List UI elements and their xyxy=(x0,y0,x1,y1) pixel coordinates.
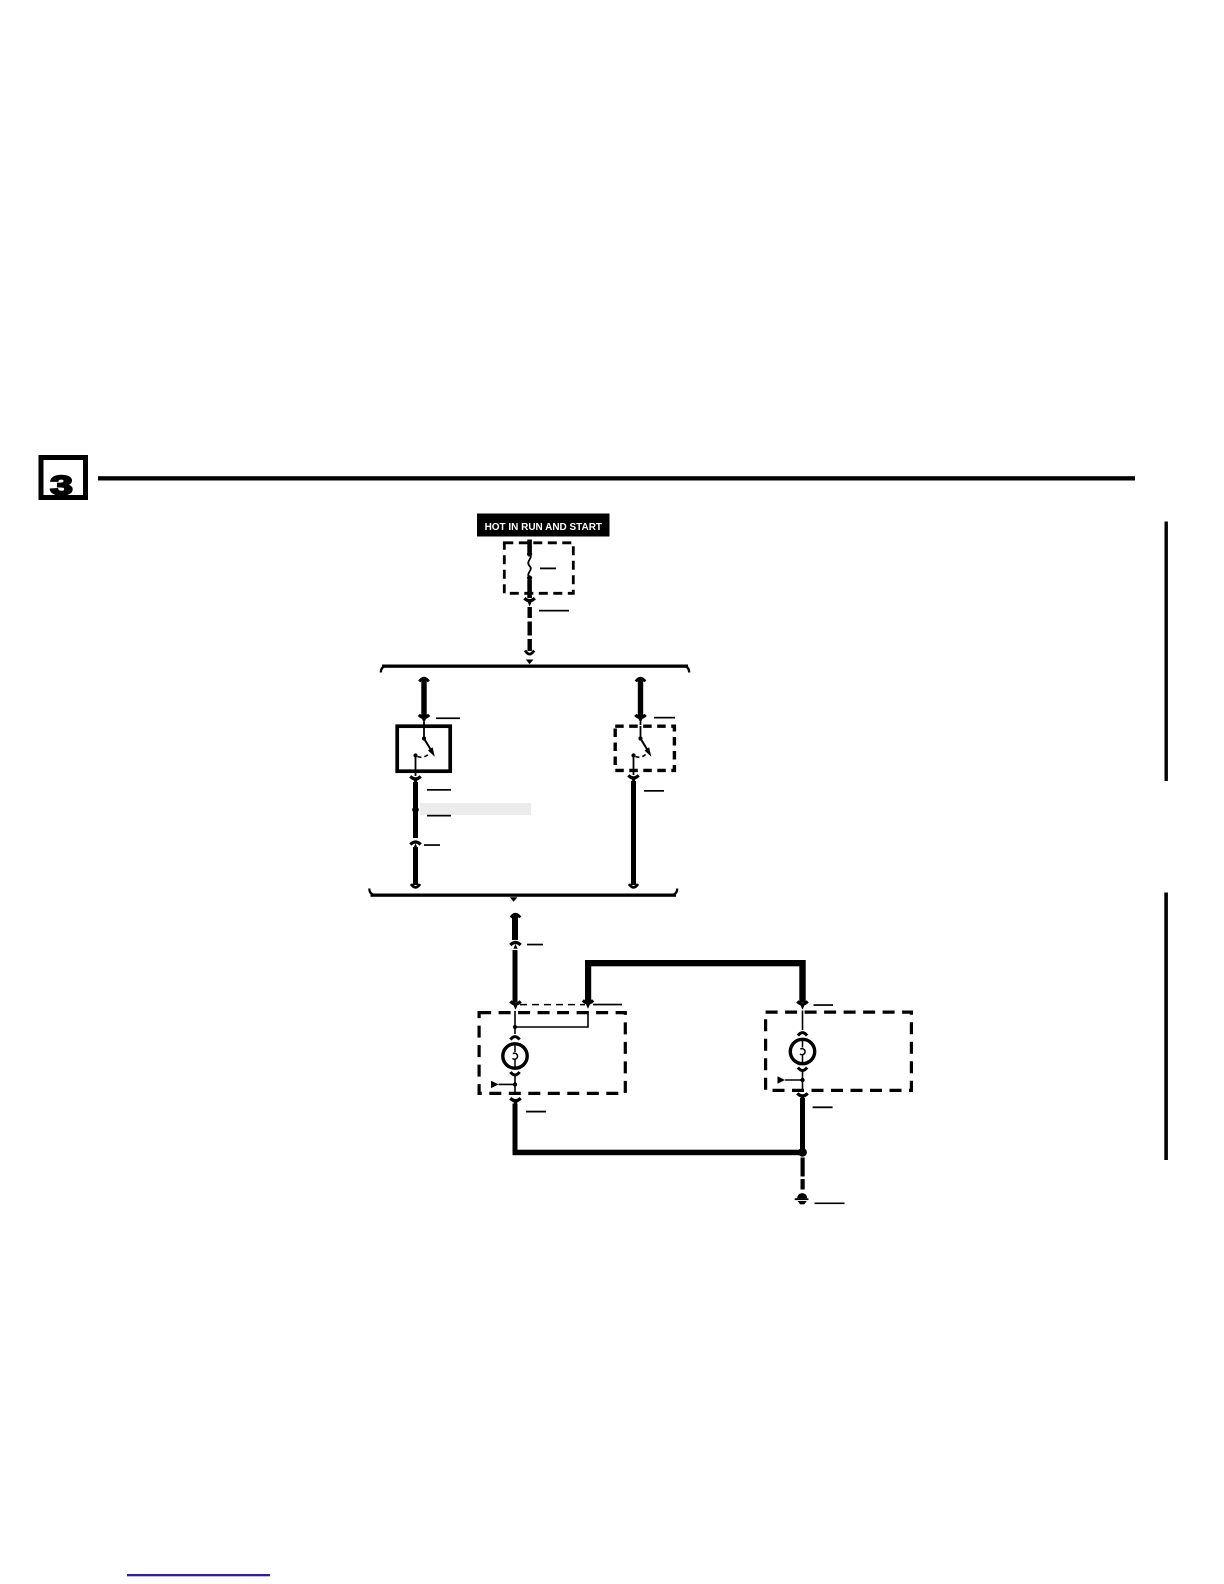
wire segment xyxy=(421,678,426,716)
bridge left leg wire xyxy=(585,960,591,1003)
lamp E2 socket bottom contact xyxy=(798,1068,807,1071)
switch S2 travel arc xyxy=(636,754,647,758)
connector arrow below fuse xyxy=(524,598,534,606)
lamp E1 ground path arrow xyxy=(491,1075,517,1095)
wire label below S1 xyxy=(427,789,451,791)
ground label xyxy=(815,1203,845,1205)
splice junction on S1 wire xyxy=(412,806,419,813)
wire S1 to bottom bus xyxy=(410,773,420,887)
fuse F1 dashed box xyxy=(504,543,573,594)
ground return wire E1 to junction xyxy=(513,1150,806,1156)
switch S2 contact arm xyxy=(641,739,648,751)
wire connector to lamp E1 xyxy=(510,950,520,1010)
wire label below E1 xyxy=(526,1111,546,1113)
connector arrow out of E2 xyxy=(797,1093,807,1096)
lamp E2 filament xyxy=(802,1039,804,1048)
bottom bus line xyxy=(371,894,677,897)
connector arrow out of S2 xyxy=(633,772,635,775)
lamp E1 pin 2 lead xyxy=(514,1075,516,1095)
inline connector on S1 wire xyxy=(410,842,420,848)
ground bar xyxy=(795,1198,809,1200)
terminal arrow into E2 pin 1 xyxy=(797,1001,807,1004)
connector label xyxy=(424,844,440,846)
wire end curl xyxy=(525,651,534,655)
wire S2 to bottom bus xyxy=(628,772,638,887)
wire start curl at bus xyxy=(419,678,428,681)
wire label below E2 xyxy=(813,1106,833,1108)
switch S1 travel arc xyxy=(418,754,430,758)
lamp E2 socket top contact xyxy=(798,1033,807,1036)
wire junction to ground (dashed) xyxy=(801,1158,805,1190)
connector arrow out of E1 xyxy=(510,1098,520,1101)
bridge wire E1 to E2 xyxy=(583,960,808,1010)
fuse F1 value label xyxy=(540,568,556,570)
highlight mark xyxy=(420,803,531,815)
wire segment lower xyxy=(413,847,418,885)
fuse F1 pin 1 dot xyxy=(527,551,532,556)
svg-text:3: 3 xyxy=(50,471,73,501)
junction arrow below bottom bus xyxy=(510,897,518,902)
lamp E1 filament xyxy=(514,1043,516,1052)
bottom bus right end curl xyxy=(671,889,677,896)
wire start curl xyxy=(511,914,520,917)
terminal arrow into E1 pin 2 xyxy=(583,1000,593,1003)
lamp E1 dashed box xyxy=(479,1013,625,1094)
lamp E2 bulb xyxy=(790,1011,814,1071)
top bus line xyxy=(382,665,688,668)
bottom bus left end curl xyxy=(369,889,375,896)
right margin bar 2 xyxy=(1164,893,1168,1161)
top bus left end curl xyxy=(381,666,387,673)
ground junction xyxy=(798,1148,807,1157)
connector arrow out of S1 xyxy=(415,773,417,776)
wire label below S2 xyxy=(644,790,664,792)
fuse F1 element xyxy=(527,551,532,580)
lamp E2 pin 1 lead xyxy=(802,1011,804,1031)
svg-text:HOT IN RUN AND START: HOT IN RUN AND START xyxy=(485,522,603,533)
lamp E1 pin 1 lead xyxy=(514,1011,516,1034)
switch S2 pin 1 lead xyxy=(640,726,642,739)
wire segment xyxy=(800,1098,805,1155)
ground wedge xyxy=(798,1201,807,1204)
wire label at junction xyxy=(427,815,451,817)
lamp E1 socket top contact xyxy=(510,1037,519,1040)
switch S1 housing xyxy=(397,726,450,771)
switch S2 housing xyxy=(615,726,674,770)
lamp E1 case arrow xyxy=(491,1081,499,1088)
power label HOT IN RUN AND START xyxy=(477,514,610,537)
node top bus xyxy=(381,665,689,673)
fuse F1 bottom lead wire xyxy=(527,580,532,598)
wire start curl at bus xyxy=(636,678,645,681)
terminal label at S1 xyxy=(436,717,460,719)
wire bottom bus to lamps xyxy=(510,897,520,940)
lamp E1 socket bottom contact xyxy=(510,1072,519,1075)
header rule xyxy=(98,476,1135,480)
bridge right leg wire xyxy=(799,960,805,1002)
connector arrow into S2 xyxy=(635,715,645,718)
fuse F1 wire squiggle xyxy=(528,554,531,578)
lamp E1 bulb globe xyxy=(503,1044,527,1068)
wire end curl at bottom bus xyxy=(629,884,638,887)
wire segment xyxy=(631,781,636,885)
fuse F1 pin 2 dot xyxy=(527,575,532,580)
wire end curl at bottom bus xyxy=(411,884,420,887)
wire segment xyxy=(513,1104,518,1156)
switch S1 pin 1 lead xyxy=(423,726,425,739)
lamp E2 pin 2 lead xyxy=(802,1071,804,1092)
lamp E2 internal junction dot xyxy=(800,1078,804,1082)
bridge top run wire xyxy=(585,960,806,966)
connector dashed tie line xyxy=(520,1004,585,1006)
connector arrow into S1 xyxy=(419,715,429,718)
fuse F1 top lead wire xyxy=(527,540,532,553)
wire label below fuse xyxy=(539,610,569,612)
ground dome xyxy=(797,1193,807,1198)
terminal arrow into E1 pin 1 xyxy=(510,1001,520,1004)
terminal label E1 xyxy=(593,1004,622,1006)
top bus right end curl xyxy=(683,666,689,673)
switch S2 pin 2 lead xyxy=(631,753,635,757)
lamp E1 internal junction dot xyxy=(513,1082,517,1086)
junction arrow at top bus xyxy=(526,660,534,665)
lamp E2 bulb globe xyxy=(790,1039,814,1063)
lamp E1 internal jumper xyxy=(513,1011,588,1034)
wire fuse to top bus (dashed thick) xyxy=(525,607,534,664)
wire top bus to switch S1 xyxy=(419,678,429,725)
switch S1 contact arm xyxy=(424,739,431,751)
wire top bus to switch S2 xyxy=(635,678,645,725)
wire segment xyxy=(638,678,643,716)
section number box 3 xyxy=(41,458,86,501)
wire E1 out xyxy=(510,1098,520,1155)
footer blue rule xyxy=(127,1574,270,1576)
connector label xyxy=(527,944,543,946)
wire E2 out xyxy=(797,1093,807,1155)
lamp E2 dashed box xyxy=(766,1012,912,1090)
lamp E2 case arrow xyxy=(778,1076,786,1083)
lamp E2 ground path arrow xyxy=(778,1071,805,1092)
switch S1 pin 2 lead xyxy=(413,753,417,757)
node bottom bus xyxy=(369,889,677,897)
terminal label E2 xyxy=(814,1004,834,1006)
switch S2 (dashed box) xyxy=(615,726,674,772)
inline connector on lamp feed xyxy=(510,943,520,949)
wire segment xyxy=(513,950,518,1002)
terminal label at S2 xyxy=(654,717,675,719)
right margin bar 1 xyxy=(1165,522,1168,782)
ground G1 xyxy=(795,1193,809,1204)
lamp E1 jumper junction dot xyxy=(513,1025,517,1029)
switch S1 (solid box) xyxy=(397,726,450,773)
lamp E1 bulb xyxy=(503,1037,527,1075)
wire segment xyxy=(512,914,518,940)
wire segment upper xyxy=(413,782,418,838)
